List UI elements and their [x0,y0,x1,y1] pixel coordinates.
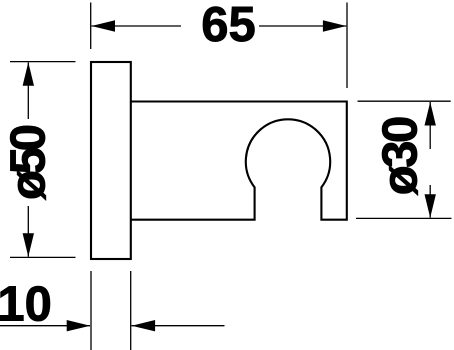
dimension ø50: extension line bottom [10,256,76,258]
svg-text:10: 10 [0,278,52,332]
dimension ø30: arrowhead down [425,194,436,218]
dimension 65: value label [201,0,256,52]
dimension ø30: extension line bottom [356,217,452,219]
svg-text:65: 65 [201,0,256,52]
dimension 10: arrowhead pointing right [67,320,91,331]
dimension ø50: dimension line bottom segment [27,206,29,257]
dimension ø30: value label (rotated) [373,116,427,196]
dimension ø30: extension line top [358,100,451,102]
dimension ø30: dimension line bottom segment [429,185,431,218]
svg-text:ø30: ø30 [373,116,427,196]
dimension ø50: value label (rotated) [1,124,55,200]
dimension ø50: dimension line top segment [27,62,29,119]
svg-text:ø50: ø50 [1,124,55,200]
dimension 65: extension line left [90,3,92,50]
dimension 10: arrowhead pointing left [132,320,156,331]
dimension 65: dimension line left segment [92,25,182,27]
dimension 10: value label [0,278,52,332]
wall plate (side view, 10mm thick, ø50 escutcheon) [91,62,131,259]
holder body (65mm long, ø30 barrel) with hose cutout [131,102,347,220]
dimension 65: arrowhead right [323,20,347,31]
dimension ø50: extension line top [10,61,76,63]
dimension 10: dimension line right segment [132,325,225,327]
dimension 65: arrowhead left [92,20,116,31]
dimension ø30: arrowhead up [425,102,436,126]
dimension 65: dimension line right segment [259,25,346,27]
dimension ø50: arrowhead down [23,233,34,257]
dimension 65: extension line right [346,3,348,89]
dimension ø50: arrowhead up [23,62,34,86]
dimension 10: dimension line left segment [0,325,90,327]
dimension 10: extension line left [90,271,92,350]
dimension 10: extension line right [130,271,132,350]
dimension ø30: dimension line top segment [429,102,431,149]
